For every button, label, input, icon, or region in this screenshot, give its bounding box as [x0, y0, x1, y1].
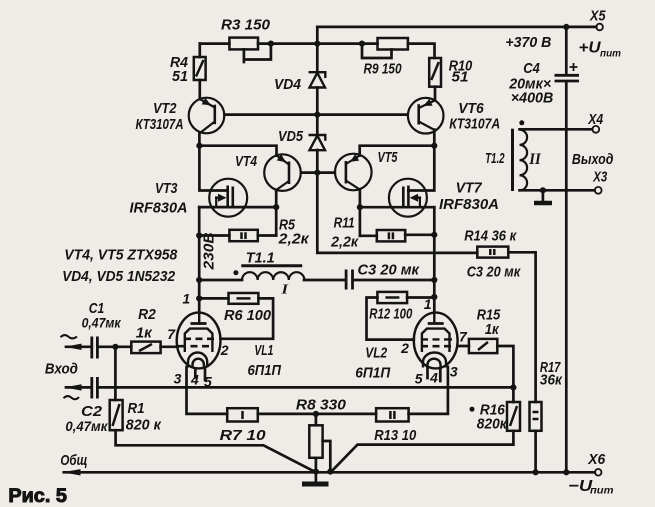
- svg-text:R12 100: R12 100: [369, 305, 412, 322]
- svg-text:820к: 820к: [477, 416, 508, 433]
- svg-text:С2: С2: [81, 403, 103, 420]
- svg-text:Общ: Общ: [60, 452, 87, 469]
- svg-text:5: 5: [415, 371, 423, 387]
- svg-text:+U: +U: [579, 40, 601, 57]
- svg-text:VT6: VT6: [458, 100, 484, 117]
- svg-text:6П1П: 6П1П: [355, 365, 391, 382]
- svg-text:VL1: VL1: [254, 342, 273, 359]
- svg-text:Х4: Х4: [587, 111, 603, 128]
- svg-text:R2: R2: [138, 306, 156, 323]
- svg-text:2,2к: 2,2к: [278, 231, 311, 248]
- svg-text:R1: R1: [128, 400, 145, 417]
- svg-text:С3 20 мк: С3 20 мк: [467, 264, 522, 281]
- svg-text:6П1П: 6П1П: [248, 362, 283, 379]
- svg-text:VL2: VL2: [365, 345, 388, 362]
- svg-text:+370 В: +370 В: [505, 34, 551, 51]
- svg-text:R11: R11: [334, 215, 355, 232]
- svg-text:VD4: VD4: [274, 76, 302, 93]
- svg-text:2,2к: 2,2к: [330, 234, 359, 251]
- svg-text:7: 7: [459, 329, 468, 345]
- svg-text:0,47мк: 0,47мк: [65, 419, 108, 434]
- svg-text:3: 3: [174, 371, 182, 387]
- svg-text:Т1.1: Т1.1: [246, 250, 275, 267]
- svg-text:VD4, VD5 1N5232: VD4, VD5 1N5232: [62, 268, 176, 285]
- svg-text:С4: С4: [523, 60, 540, 77]
- svg-text:R3 150: R3 150: [221, 17, 271, 34]
- svg-text:R6 100: R6 100: [224, 307, 272, 324]
- svg-text:1к: 1к: [136, 325, 153, 342]
- svg-text:пит: пит: [590, 486, 614, 497]
- svg-text:2: 2: [400, 340, 409, 356]
- svg-text:R14 36 к: R14 36 к: [464, 228, 517, 245]
- svg-text:7: 7: [167, 326, 176, 342]
- svg-text:1: 1: [424, 296, 432, 312]
- svg-text:С3 20 мк: С3 20 мк: [358, 262, 421, 279]
- svg-text:Х6: Х6: [587, 451, 606, 468]
- svg-text:IRF830A: IRF830A: [439, 196, 499, 213]
- svg-text:пит: пит: [600, 49, 621, 60]
- svg-text:Рис. 5: Рис. 5: [8, 486, 67, 507]
- svg-text:I: I: [280, 283, 288, 298]
- svg-text:VT4, VT5 ZTX958: VT4, VT5 ZTX958: [64, 247, 178, 264]
- svg-text:VD5: VD5: [278, 128, 304, 145]
- svg-text:5: 5: [204, 374, 212, 390]
- svg-text:IRF830A: IRF830A: [130, 200, 188, 217]
- svg-text:Х5: Х5: [589, 8, 606, 25]
- svg-text:VT3: VT3: [155, 180, 178, 197]
- svg-text:КТ3107А: КТ3107А: [449, 116, 500, 133]
- svg-text:R7 10: R7 10: [220, 427, 267, 444]
- svg-text:51: 51: [452, 69, 469, 86]
- svg-text:36к: 36к: [540, 372, 563, 389]
- svg-text:R8 330: R8 330: [296, 397, 347, 414]
- svg-text:R13 10: R13 10: [374, 427, 417, 444]
- svg-text:Т1.2: Т1.2: [485, 150, 505, 167]
- svg-text:Х3: Х3: [593, 169, 608, 186]
- svg-text:4: 4: [429, 370, 438, 386]
- svg-text:КТ3107А: КТ3107А: [136, 116, 184, 133]
- svg-text:4: 4: [190, 372, 199, 388]
- svg-text:3: 3: [450, 364, 458, 380]
- svg-text:1: 1: [182, 291, 190, 307]
- svg-text:×400В: ×400В: [511, 90, 554, 107]
- svg-text:VT4: VT4: [235, 153, 258, 170]
- svg-text:R9 150: R9 150: [364, 61, 403, 78]
- svg-text:2: 2: [220, 342, 229, 358]
- svg-text:0,47мк: 0,47мк: [82, 316, 122, 331]
- svg-text:II: II: [528, 151, 541, 168]
- svg-text:VT2: VT2: [153, 100, 177, 117]
- svg-text:С1: С1: [89, 300, 105, 317]
- svg-text:51: 51: [172, 68, 188, 85]
- svg-text:Выход: Выход: [572, 151, 614, 168]
- svg-text:Вход: Вход: [45, 361, 78, 378]
- svg-text:VT5: VT5: [378, 149, 398, 166]
- svg-text:820 к: 820 к: [126, 417, 162, 434]
- svg-text:1к: 1к: [485, 321, 500, 338]
- svg-text:VT7: VT7: [456, 180, 483, 197]
- svg-text:230В: 230В: [201, 232, 218, 270]
